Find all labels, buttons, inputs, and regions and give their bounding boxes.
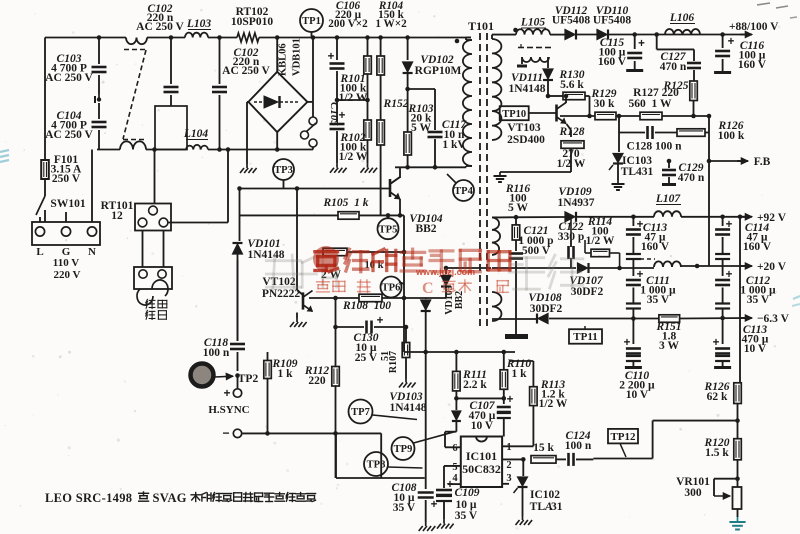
svg-text:TP8: TP8: [367, 460, 386, 471]
svg-text:10 V: 10 V: [744, 343, 767, 355]
svg-text:L103: L103: [186, 18, 212, 30]
svg-text:TP12: TP12: [610, 431, 636, 443]
svg-text:1/2 W: 1/2 W: [339, 92, 368, 104]
svg-text:250 V: 250 V: [52, 173, 81, 185]
svg-text:1/2 W: 1/2 W: [586, 235, 615, 247]
svg-text:160 V: 160 V: [743, 241, 772, 253]
svg-text:SW101: SW101: [50, 198, 85, 210]
svg-text:3: 3: [506, 473, 511, 484]
svg-text:160 V: 160 V: [738, 59, 767, 71]
svg-text:H.SYNC: H.SYNC: [208, 404, 249, 416]
svg-text:62 k: 62 k: [707, 391, 728, 403]
svg-text:L107: L107: [655, 193, 682, 205]
svg-text:+: +: [377, 315, 384, 327]
svg-text:100 k: 100 k: [718, 130, 745, 142]
svg-text:200 V×2: 200 V×2: [328, 18, 368, 30]
svg-text:SVAG: SVAG: [153, 491, 187, 505]
svg-text:+: +: [638, 38, 645, 50]
svg-text:220: 220: [308, 375, 326, 387]
svg-text:1 W×2: 1 W×2: [375, 18, 407, 30]
svg-text:5 W: 5 W: [411, 122, 431, 134]
svg-text:35 V: 35 V: [647, 294, 670, 306]
svg-text:+88/100 V: +88/100 V: [729, 21, 779, 33]
svg-text:5.6 k: 5.6 k: [560, 79, 584, 91]
svg-text:1/2 W: 1/2 W: [339, 151, 368, 163]
svg-text:TP2: TP2: [238, 373, 259, 385]
svg-text:+: +: [507, 394, 514, 406]
svg-text:F.B: F.B: [754, 156, 771, 168]
svg-text:100 n: 100 n: [565, 440, 592, 452]
svg-text:R105 1 k: R105 1 k: [322, 197, 368, 209]
svg-text:R108 100: R108 100: [342, 300, 391, 312]
svg-text:+20 V: +20 V: [757, 261, 787, 273]
svg-text:R128: R128: [559, 126, 585, 138]
svg-text:TP10: TP10: [502, 109, 526, 120]
svg-text:15 k: 15 k: [533, 442, 554, 454]
svg-text:C109: C109: [455, 487, 480, 499]
svg-text:6: 6: [452, 443, 457, 454]
svg-text:2: 2: [506, 460, 511, 471]
svg-text:N: N: [88, 246, 96, 258]
svg-text:12: 12: [111, 210, 123, 222]
svg-text:110 V: 110 V: [53, 257, 79, 269]
svg-text:C105: C105: [328, 102, 340, 126]
svg-text:TL431: TL431: [621, 166, 654, 178]
svg-text:AC 250 V: AC 250 V: [222, 65, 270, 77]
svg-text:1/2 W: 1/2 W: [539, 398, 568, 410]
svg-text:35 V: 35 V: [455, 510, 478, 522]
svg-text:2.2 k: 2.2 k: [463, 379, 487, 391]
svg-text:100 n: 100 n: [203, 347, 230, 359]
svg-text:35 V: 35 V: [393, 502, 416, 514]
svg-text:1: 1: [506, 442, 511, 453]
svg-text:L104: L104: [183, 128, 209, 140]
svg-text:1 k: 1 k: [277, 368, 293, 380]
svg-text:R152: R152: [383, 98, 409, 110]
svg-text:TL: TL: [530, 501, 546, 513]
svg-text:TP1: TP1: [302, 16, 321, 27]
svg-text:35 V: 35 V: [747, 294, 770, 306]
svg-text:TP5: TP5: [379, 224, 398, 235]
svg-text:220 V: 220 V: [54, 269, 81, 281]
svg-text:UF5408: UF5408: [552, 15, 591, 27]
svg-text:+: +: [223, 386, 230, 400]
svg-text:300: 300: [684, 487, 702, 499]
svg-text:AC 250 V: AC 250 V: [136, 21, 184, 33]
svg-text:50C832: 50C832: [462, 462, 501, 476]
svg-text:AC 250 V: AC 250 V: [45, 72, 93, 84]
svg-text:IC101: IC101: [466, 449, 497, 463]
svg-text:TP3: TP3: [274, 165, 293, 176]
svg-text:500 V: 500 V: [522, 245, 551, 257]
svg-text:IC102: IC102: [530, 489, 560, 501]
svg-text:470 n: 470 n: [660, 61, 687, 73]
svg-text:C128 100 n: C128 100 n: [627, 141, 683, 153]
svg-text:VDB101: VDB101: [292, 38, 303, 76]
svg-text:1N4148: 1N4148: [389, 402, 426, 414]
svg-text:5 W: 5 W: [508, 202, 528, 214]
svg-text:TP4: TP4: [454, 186, 473, 197]
svg-text:AC 250 V: AC 250 V: [45, 129, 93, 141]
svg-text:TP11: TP11: [573, 331, 597, 343]
svg-text:+: +: [728, 36, 735, 48]
svg-text:160 V: 160 V: [641, 241, 670, 253]
svg-text:10SP010: 10SP010: [231, 16, 273, 28]
svg-text:−: −: [222, 426, 229, 440]
svg-text:470 n: 470 n: [678, 172, 705, 184]
svg-text:10 V: 10 V: [626, 389, 649, 401]
svg-text:1N4937: 1N4937: [557, 197, 594, 209]
svg-text:TP6: TP6: [382, 283, 401, 294]
svg-text:3 W: 3 W: [659, 340, 679, 352]
svg-text:1N4148: 1N4148: [508, 83, 545, 95]
svg-text:BB2: BB2: [415, 223, 436, 235]
svg-text:L105: L105: [520, 17, 546, 29]
svg-text:UF5408: UF5408: [593, 15, 632, 27]
svg-text:30 k: 30 k: [594, 98, 615, 110]
svg-text:30DF2: 30DF2: [571, 286, 604, 298]
svg-text:TP9: TP9: [394, 444, 413, 455]
svg-text:10 V: 10 V: [471, 420, 494, 432]
svg-text:VT103: VT103: [507, 122, 540, 134]
svg-text:L: L: [36, 246, 43, 258]
svg-text:31: 31: [551, 501, 563, 513]
svg-text:1 k: 1 k: [511, 368, 527, 380]
svg-text:TP7: TP7: [351, 407, 370, 418]
svg-text:BB2: BB2: [454, 291, 465, 309]
svg-text:+: +: [328, 51, 335, 63]
svg-text:2SD400: 2SD400: [507, 134, 545, 146]
svg-text:30DF2: 30DF2: [530, 303, 563, 315]
svg-text:L106: L106: [669, 12, 695, 24]
svg-text:560 1 W: 560 1 W: [629, 98, 672, 110]
svg-text:T101: T101: [468, 19, 494, 33]
svg-text:www.jdzj.com: www.jdzj.com: [415, 267, 475, 277]
svg-text:330 p: 330 p: [558, 231, 585, 243]
svg-text:51: 51: [380, 351, 391, 361]
svg-text:LEO SRC-1498: LEO SRC-1498: [45, 491, 132, 505]
svg-text:RGP10M: RGP10M: [415, 65, 462, 77]
svg-text:25 V: 25 V: [355, 352, 378, 364]
svg-text:KBL06: KBL06: [278, 43, 289, 76]
svg-text:5: 5: [452, 462, 457, 473]
svg-text:C: C: [422, 280, 434, 297]
svg-text:1.5 k: 1.5 k: [705, 447, 729, 459]
svg-text:1N4148: 1N4148: [247, 249, 284, 261]
svg-text:160 V: 160 V: [598, 56, 627, 68]
